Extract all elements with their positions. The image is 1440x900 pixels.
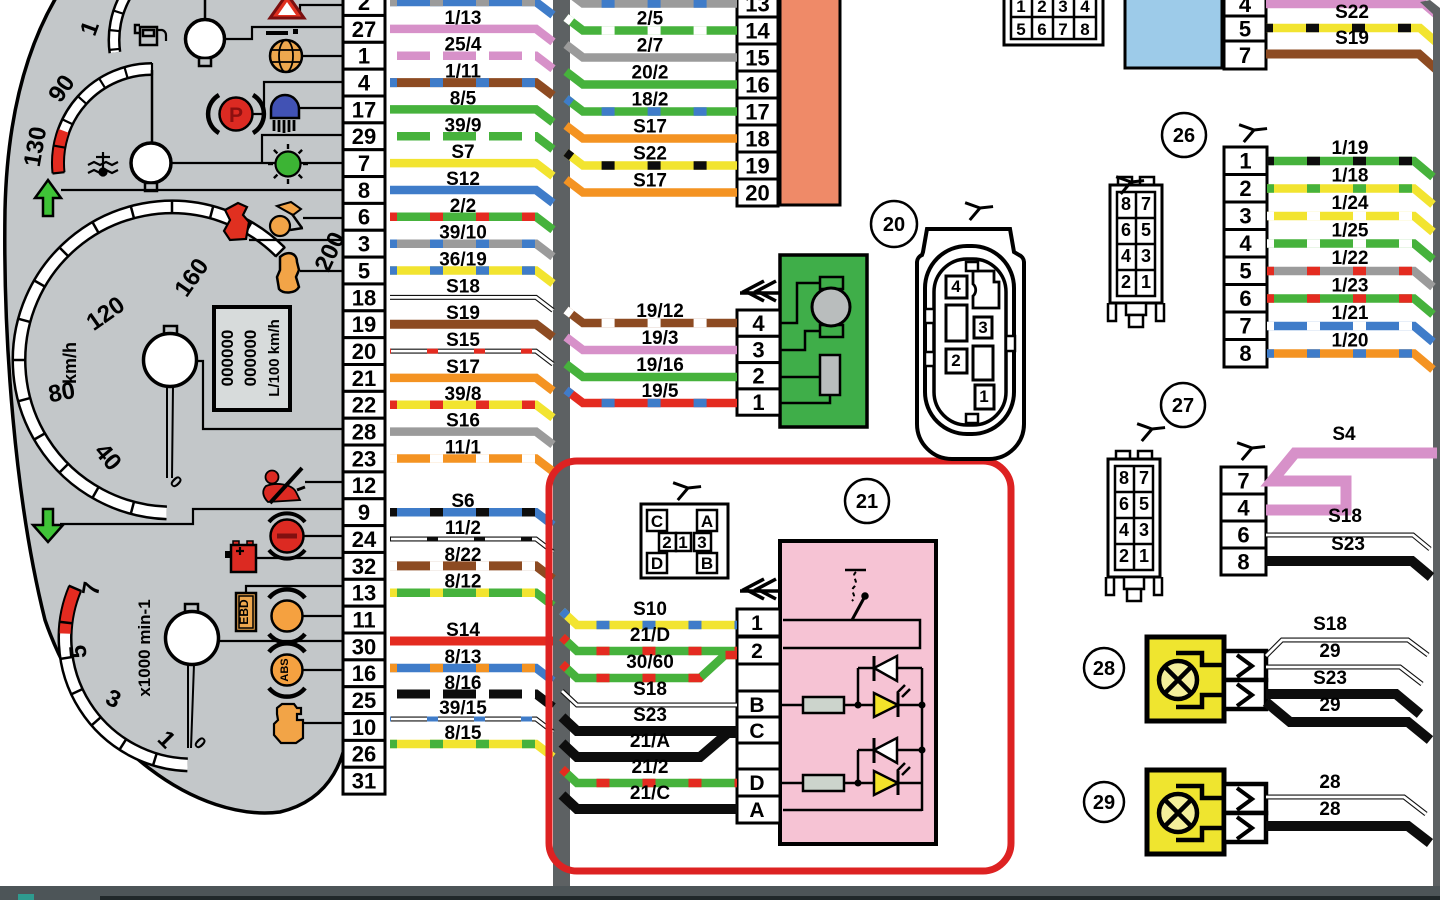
wire 1/24 bbox=[1267, 216, 1433, 232]
svg-text:19: 19 bbox=[745, 153, 769, 178]
svg-text:2/2: 2/2 bbox=[450, 196, 476, 217]
svg-text:4: 4 bbox=[1239, 0, 1252, 17]
battery icon bbox=[225, 541, 256, 572]
svg-text:2: 2 bbox=[1121, 272, 1131, 292]
svg-text:10: 10 bbox=[352, 715, 376, 740]
wire 8/22 bbox=[390, 566, 553, 579]
instrument cluster body bbox=[5, 0, 350, 813]
hazard triangle icon bbox=[270, 0, 304, 18]
svg-text:2: 2 bbox=[1239, 176, 1251, 201]
svg-text:18: 18 bbox=[745, 126, 769, 151]
svg-text:28: 28 bbox=[1093, 658, 1115, 680]
mating connector block (salmon) bbox=[780, 0, 840, 205]
wire 11/1 bbox=[390, 459, 553, 472]
tachometer hub and needle bbox=[166, 604, 219, 748]
wire 30/60 bbox=[562, 655, 737, 678]
diode pair upper bbox=[855, 656, 926, 717]
tachometer arc bbox=[59, 586, 188, 767]
wire 21/D bbox=[562, 637, 737, 651]
svg-text:5: 5 bbox=[1141, 220, 1151, 240]
svg-text:5: 5 bbox=[358, 258, 370, 283]
svg-text:1: 1 bbox=[1141, 272, 1151, 292]
connector face map C/A/2/1/3/D/B bbox=[641, 504, 728, 578]
speedometer labels bbox=[46, 228, 351, 492]
svg-text:S12: S12 bbox=[446, 169, 480, 190]
svg-text:1/13: 1/13 bbox=[445, 8, 482, 29]
svg-text:29: 29 bbox=[1319, 641, 1340, 662]
svg-text:EBD: EBD bbox=[237, 599, 251, 625]
svg-text:A: A bbox=[749, 799, 764, 822]
wire S15 bbox=[390, 351, 553, 364]
svg-text:S4: S4 bbox=[1332, 424, 1356, 445]
branch symbol near green block bbox=[965, 196, 995, 220]
svg-text:20: 20 bbox=[352, 339, 376, 364]
top right pin column 4/5/7 bbox=[1224, 0, 1266, 16]
svg-text:1: 1 bbox=[751, 612, 763, 635]
svg-text:9: 9 bbox=[358, 500, 370, 525]
svg-text:19/5: 19/5 bbox=[642, 381, 679, 402]
svg-text:S23: S23 bbox=[633, 705, 667, 726]
svg-text:7: 7 bbox=[1239, 43, 1251, 68]
svg-text:B: B bbox=[749, 694, 764, 717]
EBD icon bbox=[236, 593, 256, 631]
airbag icon bbox=[270, 202, 303, 236]
svg-text:S18: S18 bbox=[446, 276, 480, 297]
wire 1/21 bbox=[1267, 326, 1433, 342]
svg-text:S18: S18 bbox=[1328, 506, 1362, 527]
svg-text:11/1: 11/1 bbox=[445, 438, 481, 459]
wire S6 bbox=[390, 512, 553, 525]
connector 26 face icon bbox=[1108, 177, 1164, 327]
wire pink top bbox=[1266, 4, 1438, 16]
sidelight globe icon bbox=[270, 40, 302, 72]
svg-text:29: 29 bbox=[1093, 792, 1115, 814]
svg-text:B: B bbox=[701, 554, 713, 573]
svg-text:6: 6 bbox=[358, 205, 370, 230]
svg-text:S15: S15 bbox=[446, 330, 480, 351]
svg-text:28: 28 bbox=[1319, 772, 1340, 793]
branch symbol above connector 26 bbox=[1239, 118, 1269, 142]
svg-text:39/15: 39/15 bbox=[439, 698, 487, 719]
svg-text:39/9: 39/9 bbox=[445, 115, 482, 136]
wire 39/15 bbox=[390, 719, 553, 732]
svg-text:1: 1 bbox=[979, 387, 988, 406]
svg-text:8: 8 bbox=[358, 178, 370, 203]
speedometer arc bbox=[12, 200, 285, 515]
svg-text:3: 3 bbox=[1139, 520, 1149, 540]
branch symbol above face icon 26 bbox=[1116, 170, 1146, 194]
svg-text:S17: S17 bbox=[446, 357, 480, 378]
wire pin2 bbox=[390, 2, 553, 15]
svg-text:2: 2 bbox=[358, 0, 370, 15]
wire 1/19 bbox=[1267, 161, 1433, 177]
svg-text:1/25: 1/25 bbox=[1332, 221, 1369, 242]
turn arrow up bbox=[35, 180, 61, 216]
tachometer labels bbox=[64, 580, 209, 754]
svg-text:7: 7 bbox=[1139, 468, 1149, 488]
wire 29b bbox=[1266, 702, 1430, 740]
wire 11/2 bbox=[390, 539, 553, 552]
parking brake icon bbox=[208, 95, 264, 133]
svg-text:L/100 km/h: L/100 km/h bbox=[266, 319, 283, 397]
wire S12 bbox=[390, 190, 553, 203]
svg-text:27: 27 bbox=[352, 17, 376, 42]
wire 20/2 bbox=[566, 72, 737, 85]
wire 2/7 bbox=[566, 45, 737, 58]
item 27 circled label bbox=[1161, 383, 1205, 427]
wire 28a bbox=[1266, 797, 1426, 814]
svg-text:C: C bbox=[651, 512, 663, 531]
green block pin column bbox=[737, 310, 780, 415]
wire S14 bbox=[390, 637, 553, 646]
bulb check icon bbox=[268, 144, 308, 184]
svg-text:17: 17 bbox=[352, 97, 376, 122]
svg-text:x1000 min-1: x1000 min-1 bbox=[135, 599, 154, 696]
svg-text:5: 5 bbox=[1139, 494, 1149, 514]
branch symbol above face icon 27 bbox=[1137, 417, 1167, 441]
wire 2/2 bbox=[390, 217, 553, 230]
svg-text:20: 20 bbox=[745, 180, 769, 205]
wire S22t bbox=[1266, 28, 1436, 42]
fuel gauge hub and needle bbox=[186, 0, 225, 66]
svg-text:29: 29 bbox=[1319, 695, 1340, 716]
svg-text:6: 6 bbox=[1119, 494, 1129, 514]
svg-text:21/2: 21/2 bbox=[632, 757, 669, 778]
svg-text:24: 24 bbox=[352, 527, 377, 552]
wire S18 lamp bbox=[1266, 640, 1428, 656]
svg-text:1/11: 1/11 bbox=[445, 62, 481, 83]
svg-text:14: 14 bbox=[745, 18, 770, 43]
svg-text:A: A bbox=[701, 512, 713, 531]
svg-text:4: 4 bbox=[1237, 495, 1250, 520]
icon wiring lines bbox=[60, 5, 343, 723]
wire 1/25 bbox=[1267, 244, 1433, 260]
svg-text:1/18: 1/18 bbox=[1332, 166, 1369, 187]
svg-text:6: 6 bbox=[1121, 220, 1131, 240]
svg-text:2/5: 2/5 bbox=[637, 9, 664, 30]
svg-text:D: D bbox=[651, 554, 663, 573]
wire S17 bbox=[566, 126, 737, 139]
double chevron near green block bbox=[740, 281, 783, 301]
svg-text:1/23: 1/23 bbox=[1332, 276, 1369, 297]
svg-text:22: 22 bbox=[352, 393, 376, 418]
blue module box bbox=[1125, 0, 1222, 68]
svg-text:21: 21 bbox=[856, 491, 878, 513]
svg-text:19/12: 19/12 bbox=[636, 301, 684, 322]
svg-text:2/7: 2/7 bbox=[637, 36, 663, 57]
wire 21/C bbox=[562, 795, 737, 809]
wire 19/3 bbox=[566, 337, 737, 350]
wire 25/4 bbox=[390, 56, 553, 69]
lamp module (pink box) bbox=[780, 541, 936, 844]
svg-text:8/16: 8/16 bbox=[445, 673, 482, 694]
svg-text:32: 32 bbox=[352, 554, 376, 579]
wire 21/A bbox=[562, 733, 737, 757]
washer fluid icon bbox=[224, 203, 249, 240]
svg-text:8/13: 8/13 bbox=[445, 647, 482, 668]
branch symbol in red box bbox=[673, 476, 703, 500]
wire 8/15 bbox=[390, 744, 553, 757]
svg-text:5: 5 bbox=[1239, 16, 1251, 41]
wire S17 bbox=[390, 378, 553, 391]
wire 19/5 bbox=[566, 390, 737, 403]
wire 19/16 bbox=[566, 364, 737, 377]
svg-text:4: 4 bbox=[1080, 0, 1090, 16]
wire 1/11 bbox=[390, 83, 553, 96]
svg-text:2: 2 bbox=[1037, 0, 1046, 16]
wire 2/5 bbox=[566, 18, 737, 31]
svg-text:6: 6 bbox=[1239, 286, 1251, 311]
diode pair lower bbox=[855, 738, 926, 795]
wire S7 bbox=[390, 163, 553, 176]
wire S18 bbox=[390, 297, 553, 310]
wire S19t bbox=[1266, 54, 1437, 70]
wire 29a bbox=[1266, 667, 1422, 684]
wire 1/13 bbox=[390, 29, 553, 42]
svg-text:7: 7 bbox=[1141, 194, 1151, 214]
svg-text:P: P bbox=[229, 104, 243, 127]
connector X1 pin column bbox=[343, 0, 385, 794]
wire S22 bbox=[566, 153, 737, 166]
svg-text:1: 1 bbox=[1139, 546, 1149, 566]
svg-text:S19: S19 bbox=[1335, 28, 1369, 49]
svg-text:30/60: 30/60 bbox=[626, 652, 674, 673]
wire S23r bbox=[1266, 561, 1431, 577]
wire 1/18 bbox=[1267, 189, 1433, 205]
svg-text:2: 2 bbox=[751, 640, 763, 663]
svg-text:S7: S7 bbox=[451, 142, 474, 163]
svg-text:8/5: 8/5 bbox=[450, 88, 477, 109]
lamp module pin column bbox=[737, 609, 780, 823]
svg-text:S6: S6 bbox=[451, 491, 474, 512]
svg-text:13: 13 bbox=[352, 581, 376, 606]
svg-text:8/22: 8/22 bbox=[445, 545, 482, 566]
svg-text:21/C: 21/C bbox=[630, 783, 670, 804]
svg-text:28: 28 bbox=[1319, 799, 1340, 820]
svg-text:21/A: 21/A bbox=[630, 731, 670, 752]
svg-text:2: 2 bbox=[662, 533, 671, 552]
svg-text:31: 31 bbox=[352, 769, 376, 794]
svg-text:S10: S10 bbox=[633, 599, 667, 620]
lamp 29 bbox=[1147, 770, 1266, 854]
connector 26 pin column bbox=[1224, 147, 1267, 367]
svg-text:7: 7 bbox=[1239, 314, 1251, 339]
item 29 circled label bbox=[1084, 782, 1124, 822]
svg-text:8: 8 bbox=[1121, 194, 1131, 214]
item 20 circled label bbox=[871, 201, 917, 247]
wire S18r bbox=[1266, 535, 1430, 549]
wire pin13 bbox=[566, 0, 737, 4]
svg-text:5: 5 bbox=[1239, 259, 1251, 284]
svg-text:39/8: 39/8 bbox=[445, 384, 482, 405]
wire S17 bbox=[566, 180, 737, 193]
internal circuit: switch bbox=[783, 570, 920, 648]
item 21 circled label bbox=[845, 479, 889, 523]
svg-text:000000: 000000 bbox=[241, 330, 260, 387]
svg-text:7: 7 bbox=[1237, 468, 1249, 493]
item 26 circled label bbox=[1162, 113, 1206, 157]
svg-text:4: 4 bbox=[1239, 231, 1252, 256]
svg-text:8: 8 bbox=[1239, 341, 1251, 366]
wire 28b bbox=[1266, 826, 1430, 843]
svg-text:S22: S22 bbox=[1335, 2, 1369, 23]
svg-text:2: 2 bbox=[752, 364, 764, 389]
svg-text:19/3: 19/3 bbox=[642, 328, 679, 349]
svg-text:1: 1 bbox=[1239, 149, 1251, 174]
wire 8/5 bbox=[390, 109, 553, 122]
odometer LCD bbox=[214, 307, 290, 410]
svg-text:11/2: 11/2 bbox=[445, 518, 481, 539]
svg-text:19/16: 19/16 bbox=[636, 355, 684, 376]
red highlight box bbox=[549, 461, 1011, 871]
temperature gauge arc bbox=[53, 63, 153, 174]
connector 27 face icon bbox=[1106, 451, 1162, 601]
wire 18/2 bbox=[566, 99, 737, 112]
internal circuit: row B resistor and LEDs bbox=[780, 668, 922, 811]
svg-text:2: 2 bbox=[1119, 546, 1129, 566]
svg-text:29: 29 bbox=[352, 124, 376, 149]
svg-text:8/12: 8/12 bbox=[445, 572, 482, 593]
svg-text:16: 16 bbox=[352, 661, 376, 686]
svg-text:26: 26 bbox=[1173, 125, 1195, 147]
svg-text:S16: S16 bbox=[446, 411, 480, 432]
svg-text:20: 20 bbox=[883, 214, 905, 236]
svg-text:4: 4 bbox=[358, 70, 371, 95]
seat belt icon bbox=[263, 468, 305, 503]
svg-text:8: 8 bbox=[1119, 468, 1129, 488]
svg-text:28: 28 bbox=[352, 420, 376, 445]
speedometer hub and needle bbox=[144, 326, 197, 478]
svg-text:2: 2 bbox=[951, 351, 960, 370]
svg-text:19: 19 bbox=[352, 312, 376, 337]
bottom harness bar bbox=[0, 886, 1440, 900]
svg-text:S14: S14 bbox=[446, 620, 480, 641]
wire 1/23 bbox=[1267, 299, 1433, 315]
svg-text:S23: S23 bbox=[1313, 668, 1347, 689]
svg-text:S17: S17 bbox=[633, 171, 667, 192]
svg-text:23: 23 bbox=[352, 446, 376, 471]
wire S18b bbox=[562, 691, 737, 705]
wiring harness trunk (right) bbox=[1420, 0, 1440, 888]
svg-text:30: 30 bbox=[352, 634, 376, 659]
svg-text:20/2: 20/2 bbox=[632, 63, 669, 84]
8-cell connector grid bbox=[1004, 0, 1103, 45]
svg-text:ABS: ABS bbox=[279, 658, 291, 681]
svg-text:S22: S22 bbox=[633, 144, 667, 165]
svg-text:1: 1 bbox=[1016, 0, 1025, 16]
wire S19 bbox=[390, 324, 553, 337]
svg-text:11: 11 bbox=[352, 607, 375, 632]
wire 19/12 bbox=[566, 310, 737, 323]
svg-text:18/2: 18/2 bbox=[632, 90, 669, 111]
svg-text:3: 3 bbox=[1239, 204, 1251, 229]
svg-text:18: 18 bbox=[352, 285, 376, 310]
svg-text:6: 6 bbox=[1037, 20, 1046, 39]
wire 36/19 bbox=[390, 271, 553, 284]
svg-text:D: D bbox=[749, 772, 764, 795]
svg-text:1/19: 1/19 bbox=[1332, 138, 1369, 159]
wire S16 bbox=[390, 432, 553, 445]
wire 8/13 bbox=[390, 668, 553, 681]
svg-text:1: 1 bbox=[358, 44, 370, 69]
brake wear icon bbox=[269, 589, 305, 642]
wire 1/20 bbox=[1267, 354, 1433, 370]
wire 39/9 bbox=[390, 136, 553, 149]
svg-text:4: 4 bbox=[1121, 246, 1131, 266]
fuel pump icon bbox=[135, 25, 166, 45]
svg-text:3: 3 bbox=[752, 337, 764, 362]
svg-text:S17: S17 bbox=[633, 117, 667, 138]
green control block bbox=[780, 255, 867, 427]
svg-text:8: 8 bbox=[1237, 549, 1249, 574]
temperature gauge hub and needle bbox=[131, 70, 171, 191]
turn arrow down bbox=[33, 509, 63, 542]
svg-text:4: 4 bbox=[1119, 520, 1129, 540]
high beam icon bbox=[271, 95, 299, 133]
svg-text:16: 16 bbox=[745, 72, 769, 97]
svg-text:S18: S18 bbox=[633, 679, 667, 700]
svg-text:25: 25 bbox=[352, 688, 376, 713]
connector 27 pin column bbox=[1221, 467, 1266, 575]
svg-text:1/21: 1/21 bbox=[1332, 303, 1369, 324]
branch symbol above connector 27 bbox=[1237, 436, 1267, 460]
svg-text:27: 27 bbox=[1172, 395, 1194, 417]
svg-text:3: 3 bbox=[1058, 0, 1067, 16]
svg-text:12: 12 bbox=[352, 473, 376, 498]
door ajar car icon bbox=[277, 253, 299, 292]
svg-text:C: C bbox=[749, 720, 764, 743]
svg-text:7: 7 bbox=[358, 151, 370, 176]
svg-text:3: 3 bbox=[697, 533, 706, 552]
svg-text:39/10: 39/10 bbox=[439, 223, 487, 244]
svg-text:1: 1 bbox=[752, 390, 764, 415]
svg-text:S19: S19 bbox=[446, 303, 480, 324]
svg-text:25/4: 25/4 bbox=[445, 35, 482, 56]
svg-text:3: 3 bbox=[978, 318, 987, 337]
wire 39/8 bbox=[390, 405, 553, 418]
svg-text:5: 5 bbox=[1016, 20, 1025, 39]
wiring harness trunk (center) bbox=[553, 0, 570, 888]
svg-text:26: 26 bbox=[352, 742, 376, 767]
svg-text:3: 3 bbox=[358, 232, 370, 257]
connector X2 pin column (13-20) bbox=[737, 0, 778, 206]
lamp 28 bbox=[1147, 637, 1266, 721]
svg-text:4: 4 bbox=[752, 311, 765, 336]
wire 39/10 bbox=[390, 244, 553, 257]
wire 1/22 bbox=[1267, 271, 1433, 287]
coolant temp icon bbox=[88, 152, 118, 176]
svg-text:000000: 000000 bbox=[218, 330, 237, 387]
svg-text:15: 15 bbox=[745, 45, 769, 70]
svg-text:km/h: km/h bbox=[60, 342, 80, 384]
svg-text:S18: S18 bbox=[1313, 614, 1347, 635]
svg-text:36/19: 36/19 bbox=[439, 250, 487, 271]
oval connector housing bbox=[917, 229, 1024, 459]
wire S10 bbox=[562, 611, 737, 625]
item 28 circled label bbox=[1084, 648, 1124, 688]
wire S23b bbox=[562, 717, 737, 731]
fuel gauge arc bbox=[109, 0, 132, 53]
double chevron at lamp module bbox=[740, 579, 783, 599]
wire 8/16 bbox=[390, 694, 553, 707]
wire S4 bbox=[1266, 453, 1437, 510]
svg-text:8: 8 bbox=[1080, 20, 1089, 39]
wire 8/12 bbox=[390, 593, 553, 606]
svg-text:21: 21 bbox=[352, 366, 376, 391]
svg-text:5: 5 bbox=[64, 644, 92, 660]
svg-text:17: 17 bbox=[745, 99, 769, 124]
brake fluid icon bbox=[269, 513, 305, 558]
